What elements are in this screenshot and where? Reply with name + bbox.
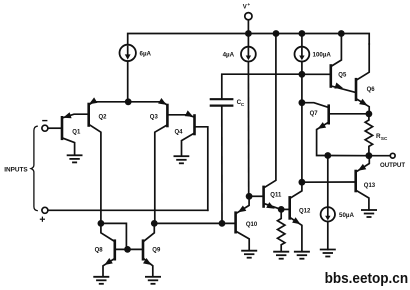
transistor Q1: [48, 112, 88, 155]
label Q4: [175, 129, 184, 135]
label 6uA: [140, 51, 152, 58]
label INPUTS: [4, 167, 28, 174]
wire tail to Q3 emitter: [128, 102, 167, 105]
transistor Q11: [249, 34, 281, 210]
svg-text:100µA: 100µA: [313, 52, 332, 59]
label Q9: [152, 247, 161, 253]
node output: [366, 152, 373, 159]
capacitor CC: [211, 74, 302, 223]
brace inputs: [31, 126, 37, 210]
node top-100uA: [299, 30, 306, 37]
ground G9 under Q13: [362, 210, 376, 217]
wire bias column: [301, 74, 303, 182]
svg-text:Q10: Q10: [246, 222, 258, 228]
V+ terminal: [245, 13, 252, 20]
ground G4 under Q9: [146, 277, 160, 284]
label Q10: [246, 222, 258, 228]
transistor Q13: [302, 156, 369, 210]
label Q3: [150, 115, 159, 121]
arrow Q3 emitter: [158, 98, 167, 105]
svg-text:bbs.eetop.cn: bbs.eetop.cn: [325, 270, 409, 287]
label Q2: [99, 115, 108, 121]
svg-text:Q13: Q13: [364, 183, 376, 189]
current source I4 50uA: [321, 156, 335, 250]
svg-text:Q12: Q12: [299, 208, 311, 214]
ground G2 under Q4: [174, 156, 188, 163]
wire plus input to Q4 base: [48, 209, 208, 211]
label 50uA: [339, 212, 354, 219]
label OUTPUT: [380, 162, 405, 169]
wire mirror diode connection: [101, 223, 127, 249]
node Q12 collector: [299, 179, 306, 186]
transistor Q7: [302, 103, 369, 156]
node top-Q11: [273, 30, 280, 37]
transistor Q8: [101, 223, 142, 276]
label Q5: [338, 72, 347, 78]
svg-text:Q9: Q9: [152, 247, 161, 253]
transistor Q10: [236, 196, 250, 250]
node top-Q5: [338, 30, 345, 37]
svg-text:INPUTS: INPUTS: [4, 167, 28, 174]
label RSC: [376, 133, 388, 141]
svg-text:Q1: Q1: [72, 129, 81, 135]
wire mirror to Q10 base: [154, 222, 234, 224]
transistor Q6: [356, 44, 369, 114]
watermark bbs.eetop.cn: [325, 270, 409, 287]
V+ label: [243, 3, 251, 11]
label 4uA: [223, 51, 235, 58]
node Q6e-Q7b-Rsc: [366, 111, 373, 118]
ground G3 under Q8: [94, 277, 108, 284]
label Q13: [364, 183, 376, 189]
node Q5 base: [299, 71, 306, 78]
ground G5 under Q10: [242, 251, 256, 258]
svg-text:Q5: Q5: [338, 72, 347, 78]
label Q11: [270, 193, 282, 199]
svg-text:V: V: [243, 5, 247, 11]
svg-text:Q2: Q2: [99, 115, 108, 121]
wire output node left: [328, 155, 369, 157]
wire V+ drop: [247, 20, 249, 34]
svg-text:OUTPUT: OUTPUT: [380, 162, 405, 169]
label 100uA: [313, 52, 332, 59]
transistor Q4: [182, 110, 208, 210]
node Q3c-Q9c: [151, 220, 158, 227]
arrow Q2 emitter: [89, 97, 98, 104]
transistor Q3: [155, 105, 187, 223]
wire output: [369, 155, 390, 157]
node Q2c-Q8c: [98, 220, 105, 227]
svg-text:Q3: Q3: [150, 115, 159, 121]
label Q7: [310, 111, 319, 117]
svg-text:Q8: Q8: [95, 247, 104, 253]
node Q8Q9 bases: [124, 246, 131, 253]
node 50uA top: [324, 152, 331, 159]
transistor Q12: [281, 182, 302, 251]
node A tail: [125, 98, 132, 105]
svg-text:Q4: Q4: [175, 129, 184, 135]
svg-text:Q7: Q7: [310, 111, 319, 117]
svg-text:50µA: 50µA: [339, 212, 354, 219]
svg-text:SC: SC: [381, 136, 388, 141]
node 4uA-Q10e-Q11b: [246, 193, 253, 200]
transistor Q5: [302, 34, 355, 93]
current source I2 4uA: [241, 34, 256, 197]
label Q6: [367, 87, 376, 93]
svg-text:C: C: [241, 102, 245, 107]
ground G7 under Q12: [295, 252, 309, 259]
svg-text:Q11: Q11: [270, 193, 282, 199]
node top-4uA: [245, 30, 252, 37]
ground G8 under 50uA: [321, 250, 335, 257]
terminal OUTPUT: [390, 153, 395, 158]
wire tail to Q2 emitter: [89, 102, 128, 105]
svg-text:6µA: 6µA: [140, 51, 152, 58]
label Q1: [72, 129, 81, 135]
ground G1 under Q1: [68, 155, 82, 162]
terminal minus input: [42, 121, 48, 132]
label Q8: [95, 247, 104, 253]
resistor RSC: [365, 114, 372, 156]
svg-text:+: +: [247, 3, 250, 8]
terminal plus input: [40, 207, 48, 221]
ground G6 under R2: [274, 252, 288, 259]
svg-text:4µA: 4µA: [223, 51, 235, 58]
wire top rail: [128, 34, 370, 45]
node CC bottom: [219, 220, 226, 227]
label CC: [237, 99, 245, 107]
svg-text:Q6: Q6: [367, 87, 376, 93]
node Q7 collector: [299, 99, 306, 106]
resistor R2: [278, 209, 285, 251]
current source I1 6uA: [120, 45, 136, 61]
wire 6uA to tail node: [127, 61, 129, 102]
label Q12: [299, 208, 311, 214]
node Q11e-R2-Q12b: [278, 206, 285, 213]
transistor Q2: [89, 104, 101, 223]
transistor Q9: [143, 223, 154, 276]
current source I3 100uA: [295, 34, 310, 75]
